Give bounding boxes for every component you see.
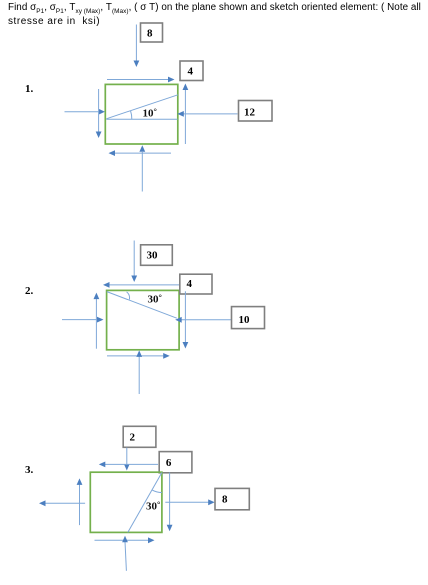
plane inclined line in element 1 — [106, 95, 178, 119]
value box 30 — [141, 245, 173, 265]
arrow sigma-y bottom (up) — [136, 350, 142, 394]
plane horizontal line in element 1 — [106, 118, 177, 120]
arrow sigma-y top (down) — [131, 241, 137, 283]
square element 1 — [105, 84, 178, 144]
svg-text:4: 4 — [187, 278, 193, 290]
square element 3 — [90, 472, 162, 532]
svg-text:4: 4 — [187, 66, 193, 78]
svg-text:30°: 30° — [148, 292, 162, 306]
value box 4 — [180, 274, 212, 294]
square element 2 — [107, 290, 180, 349]
header line 1 — [8, 2, 421, 15]
arrow tau right edge (down) — [183, 291, 189, 348]
arrow tau right edge (down) — [167, 473, 173, 532]
svg-text:6: 6 — [166, 457, 172, 469]
header line 2 — [8, 16, 100, 27]
arrow sigma-y bottom (up) — [139, 145, 145, 191]
plane inclined line in element 3 — [128, 473, 162, 533]
arrow tau bottom edge (left) — [109, 150, 172, 156]
arrow tau top edge (left) — [99, 462, 158, 468]
svg-text:10: 10 — [239, 314, 251, 326]
value box 8 — [141, 23, 163, 42]
arrow sigma-x right (left) — [175, 317, 231, 323]
svg-text:2.: 2. — [25, 285, 34, 297]
svg-text:3.: 3. — [25, 464, 34, 476]
arrow sigma-y bottom (up) — [122, 536, 128, 571]
value box 4 — [180, 61, 203, 81]
arrow tau top edge (left) — [103, 282, 180, 288]
angle arc 2 — [127, 292, 130, 300]
arrow tau left edge (up) — [77, 478, 83, 525]
arrow sigma-x right (left) — [177, 111, 237, 117]
value box 12 — [239, 101, 273, 122]
svg-text:8: 8 — [222, 493, 228, 505]
arrow tau bottom edge (right) — [95, 537, 155, 543]
svg-text:10°: 10° — [143, 106, 157, 120]
arrow sigma-y top (down) — [124, 448, 130, 471]
arrow sigma-x left (left) — [39, 500, 85, 506]
arrow sigma-x right (right) — [165, 499, 214, 505]
value box 6 — [159, 452, 192, 473]
svg-text:30: 30 — [147, 249, 159, 261]
arrow tau top edge (right) — [107, 77, 175, 83]
svg-text:2: 2 — [130, 431, 136, 443]
svg-text:8: 8 — [147, 28, 153, 40]
value box 2 — [123, 426, 156, 447]
arrow sigma-x left (right) — [62, 317, 104, 323]
arrow sigma-y top (down) — [134, 25, 140, 68]
plane inclined line in element 2 — [107, 292, 177, 319]
value box 8 (element 3) — [215, 488, 249, 509]
arrow tau bottom edge (right) — [107, 353, 170, 359]
angle arc 3 — [152, 490, 162, 493]
arrow sigma-x left (right) — [65, 109, 105, 115]
svg-text:30°: 30° — [146, 499, 160, 513]
svg-text:1.: 1. — [25, 83, 34, 95]
arrow tau left edge (down) — [96, 89, 102, 138]
value box 10 — [232, 307, 265, 329]
arrow tau right edge (up) — [183, 84, 189, 145]
svg-text:12: 12 — [244, 106, 256, 118]
arrow tau left edge (up) — [94, 293, 100, 349]
angle arc 1 — [131, 111, 132, 120]
